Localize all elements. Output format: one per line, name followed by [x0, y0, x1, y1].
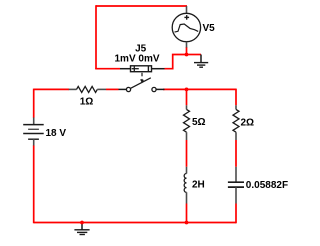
capacitor C 0.05882F — [228, 167, 244, 204]
wire branch B middle — [235, 140, 237, 167]
wire main row left — [34, 88, 69, 90]
svg-text:0.05882F: 0.05882F — [246, 180, 288, 191]
node junction bottom branch — [185, 221, 189, 225]
node junction top — [185, 53, 189, 57]
wire J5 row right — [165, 55, 187, 69]
wire top loop horizontal — [96, 5, 187, 7]
switch J5 contacts — [119, 78, 165, 92]
wire J5 row left — [95, 68, 120, 70]
wire V5 bottom — [186, 47, 188, 55]
wire bottom rail — [34, 222, 236, 224]
wire left rail top — [33, 89, 35, 118]
wire branch B bottom — [235, 204, 237, 224]
resistor R 2ohm — [233, 105, 239, 140]
wire main row right — [163, 88, 236, 90]
voltage source V5 — [172, 6, 200, 48]
switch J5 coil box — [120, 66, 165, 72]
svg-text:18 V: 18 V — [46, 128, 67, 139]
resistor R 5ohm — [184, 105, 190, 140]
wire node to top ground — [187, 54, 202, 56]
ground bottom — [74, 223, 89, 235]
wire branch B top — [235, 89, 237, 106]
svg-text:1Ω: 1Ω — [80, 97, 94, 108]
svg-text:2H: 2H — [192, 179, 205, 190]
battery V 18V — [23, 118, 44, 146]
resistor R 1ohm — [69, 86, 106, 92]
inductor L 2H — [184, 167, 186, 204]
ground top — [194, 55, 208, 68]
svg-text:V5: V5 — [203, 23, 216, 34]
wire branch A bottom — [186, 204, 188, 223]
svg-text:1mV 0mV: 1mV 0mV — [114, 54, 159, 65]
switch J5 control line — [141, 73, 144, 82]
wire branch A top — [186, 89, 188, 105]
svg-text:5Ω: 5Ω — [192, 117, 206, 128]
wire between R1 and switch — [106, 88, 119, 90]
node junction bottom ground — [80, 221, 84, 225]
svg-text:2Ω: 2Ω — [241, 117, 255, 128]
wire top loop left vertical — [95, 5, 97, 69]
node junction main row — [185, 88, 189, 92]
wire branch A middle — [186, 140, 188, 167]
wire left rail bottom — [33, 145, 35, 223]
